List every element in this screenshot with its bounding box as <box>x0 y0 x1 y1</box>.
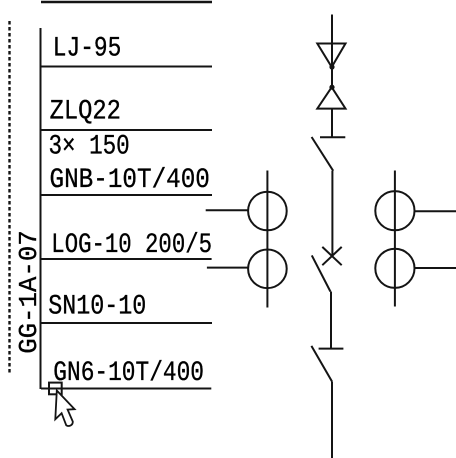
svg-text:ZLQ22: ZLQ22 <box>50 97 121 128</box>
svg-text:LOG-10 200/5: LOG-10 200/5 <box>51 230 212 261</box>
svg-text:LJ-95: LJ-95 <box>53 34 122 65</box>
svg-text:GG-1A-07: GG-1A-07 <box>14 230 44 354</box>
svg-text:GNB-10T/400: GNB-10T/400 <box>50 165 210 196</box>
svg-text:3× 150: 3× 150 <box>49 132 130 163</box>
svg-text:SN10-10: SN10-10 <box>48 292 146 323</box>
svg-text:GN6-10T/400: GN6-10T/400 <box>53 358 204 389</box>
